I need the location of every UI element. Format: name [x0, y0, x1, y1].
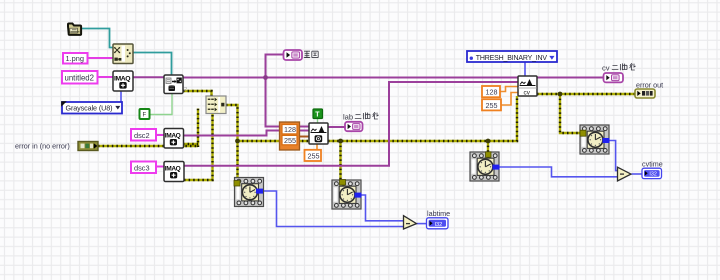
- wire: merge errors out to lab threshold and clock1: [226, 105, 309, 181]
- lab threshold VI: [309, 123, 328, 144]
- wire: clock2 ms out to subtract1: [361, 195, 404, 221]
- junction: image wire dot: [263, 75, 268, 80]
- wire: clock4 ms out to subtract2: [609, 141, 618, 171]
- wire: IMAQ Create untitled2 image to ReadFile (purple): [133, 76, 164, 78]
- wire: dsc2 string to IMAQ Create 2: [156, 134, 164, 136]
- svg-text:128: 128: [284, 125, 296, 134]
- svg-text:dsc3: dsc3: [134, 163, 150, 172]
- svg-text:F: F: [143, 113, 147, 119]
- boolean constant F: [140, 109, 150, 119]
- wire: IMAQ Create dsc3 error out to merge errors: [184, 114, 213, 181]
- svg-text:T: T: [315, 111, 320, 118]
- cv binary image indicator: [604, 73, 624, 82]
- svg-text:255: 255: [308, 151, 320, 160]
- wire: dsc3 string to IMAQ Create 3: [156, 166, 164, 168]
- svg-text:IMAQ: IMAQ: [114, 76, 130, 83]
- wire: boolean T to lab threshold: [317, 119, 319, 123]
- wire: THRESH ring to CV threshold: [524, 62, 526, 76]
- wire: boolean F to ReadFile (light green): [150, 94, 173, 115]
- numeric constant 128 (cv): [482, 86, 500, 97]
- original image indicator: [284, 50, 303, 60]
- subtract2: [618, 167, 632, 181]
- wire: 1.png string to Build Path (magenta): [88, 57, 114, 59]
- svg-text:I32: I32: [649, 172, 657, 178]
- svg-text:labtime: labtime: [427, 209, 450, 218]
- cvtime indicator: [642, 159, 663, 178]
- svg-text:255: 255: [284, 136, 296, 145]
- error in (no error) control: [15, 142, 98, 151]
- svg-text:cv: cv: [524, 90, 531, 97]
- clock1 (lab start time): [234, 178, 264, 207]
- wire: subtract1 to labtime indicator: [417, 223, 428, 225]
- label: lab binary (latin+CJK): [343, 112, 379, 121]
- svg-text:255: 255: [486, 101, 498, 110]
- wire: Grayscale ring to IMAQ Create type (blue): [120, 91, 122, 103]
- string constant dsc2: [131, 129, 156, 141]
- wire: folder path to Build Path (teal): [82, 29, 114, 48]
- wire: dsc2 image to lab threshold dst input: [184, 131, 310, 136]
- string constant dsc3: [131, 162, 156, 174]
- wire: lab threshold out to lab indicator: [328, 126, 345, 128]
- wire: branch to lab threshold src input: [266, 78, 310, 127]
- wire: lab threshold error out to CV threshold, clock2, clock3: [328, 96, 517, 180]
- folder path constant: [68, 24, 81, 35]
- junction: error wire dots: [235, 139, 240, 144]
- wire: 255 constant to lab threshold: [316, 144, 318, 150]
- IMAQ Create dsc3: [164, 162, 184, 182]
- svg-text:dsc2: dsc2: [134, 131, 150, 140]
- cluster constant 128/255: [280, 122, 300, 150]
- wire: subtract2 to cvtime indicator: [632, 173, 643, 175]
- svg-text:cvtime: cvtime: [642, 159, 663, 168]
- svg-text:2: 2: [184, 87, 187, 93]
- ring constant Grayscale (U8): [61, 101, 122, 113]
- CV threshold VI: [518, 76, 537, 97]
- IMAQ Create dsc2: [164, 129, 184, 149]
- clock3 (cv start time): [470, 152, 500, 181]
- wire: 255 constant to CV threshold: [501, 93, 518, 106]
- wire: CV threshold error out to error out indicator and clock4: [537, 94, 635, 133]
- wire: dsc3 image to CV threshold dst input: [184, 82, 518, 166]
- numeric constant 255 (lab): [305, 150, 322, 161]
- wire: clock1 ms out to subtract1: [263, 191, 404, 227]
- svg-text:untitled2: untitled2: [65, 73, 94, 82]
- string constant 1.png: [63, 53, 88, 64]
- svg-text:IMAQ: IMAQ: [165, 166, 181, 173]
- clock2 (lab end time): [332, 180, 362, 210]
- error out indicator: [635, 81, 663, 98]
- label: cv binary (latin+CJK): [602, 63, 636, 72]
- boolean constant T: [313, 109, 323, 119]
- wire: clock3 ms out to subtract2: [499, 167, 618, 177]
- svg-text:I32: I32: [435, 222, 443, 228]
- svg-text:IMAQ: IMAQ: [165, 133, 181, 140]
- labtime indicator: [427, 209, 451, 229]
- wire: IMAQ ReadFile error out to merge errors: [183, 91, 212, 97]
- wire: Build Path out to ReadFile file path input: [133, 53, 172, 75]
- svg-text:lab: lab: [343, 113, 353, 122]
- merge errors node: [206, 96, 226, 114]
- clock4 (cv end time): [580, 125, 610, 154]
- lab binary image indicator: [345, 122, 363, 131]
- ring constant THRESH_BINARY_INV: [467, 51, 557, 62]
- Build Path node: [113, 44, 133, 64]
- wire: untitled2 string to IMAQ Create: [98, 76, 114, 78]
- svg-text:1.png: 1.png: [66, 54, 85, 63]
- wire: 128 constant to CV threshold: [500, 87, 518, 92]
- subtract1: [404, 216, 417, 229]
- svg-text:error in (no error): error in (no error): [15, 142, 70, 151]
- wire: 128/255 cluster to lab threshold (brown-orange): [300, 136, 310, 138]
- wire: branch to original-image indicator: [266, 55, 285, 78]
- svg-text:128: 128: [486, 88, 498, 97]
- numeric constant 255 (cv): [482, 99, 501, 110]
- svg-text:Grayscale (U8): Grayscale (U8): [66, 104, 113, 113]
- wire: main image wire ReadFile to CV threshold to cv indicator: [183, 77, 604, 79]
- IMAQ ReadFile node: [164, 75, 187, 94]
- svg-text:cv: cv: [602, 64, 610, 73]
- IMAQ Create (untitled2): [113, 71, 133, 91]
- svg-text:THRESH_BINARY_INV: THRESH_BINARY_INV: [476, 55, 548, 62]
- wire: error in to merge errors (olive dashed): [98, 109, 198, 148]
- label: yuan-tu (CJK): [304, 51, 318, 57]
- string constant untitled2: [62, 71, 98, 84]
